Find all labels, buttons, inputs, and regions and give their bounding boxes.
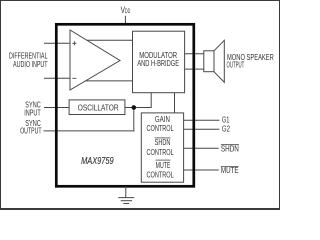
- image border frame: [1, 1, 280, 210]
- wire VDD supply: [124, 16, 126, 25]
- svg-text:CONTROL: CONTROL: [147, 170, 175, 179]
- wire SHDN: [184, 147, 219, 149]
- svg-text:MUTE: MUTE: [221, 166, 239, 175]
- wire sync output vertical: [133, 108, 135, 132]
- wire oscillator output: [125, 107, 151, 109]
- svg-text:G2: G2: [222, 125, 230, 134]
- svg-text:SHDN: SHDN: [221, 144, 239, 153]
- svg-text:SHDN: SHDN: [155, 138, 171, 147]
- wire modulator to gain control drop: [174, 93, 176, 114]
- speaker driver rectangle: [204, 51, 214, 72]
- svg-text:GAIN: GAIN: [155, 115, 170, 124]
- junction dot oscillator node: [132, 105, 137, 110]
- svg-text:DD: DD: [125, 8, 131, 15]
- wire MUTE: [184, 169, 219, 171]
- svg-text:MUTE: MUTE: [156, 161, 171, 170]
- pin label MUTE with overline: [221, 165, 239, 167]
- op-amp input triangle: [70, 30, 120, 90]
- svg-text:G1: G1: [222, 116, 230, 125]
- svg-text:INPUT: INPUT: [24, 109, 41, 118]
- svg-text:OUTPUT: OUTPUT: [20, 126, 42, 135]
- wire sync output horizontal: [44, 130, 135, 132]
- wire differential input -: [44, 77, 70, 79]
- pin label SHDN with overline: [221, 144, 239, 146]
- oscillator box: [69, 100, 125, 115]
- wire amp output bottom to modulator: [86, 80, 133, 82]
- svg-text:AND H-BRIDGE: AND H-BRIDGE: [137, 59, 179, 68]
- wire speaker out-: [185, 68, 204, 70]
- wire modulator bottom left drop: [150, 93, 152, 108]
- wire G2: [184, 128, 220, 130]
- mute control label: [156, 159, 171, 161]
- svg-text:CONTROL: CONTROL: [147, 124, 175, 133]
- shdn control label: [155, 137, 171, 139]
- wire amp output top to modulator: [86, 39, 132, 41]
- control block box: [141, 113, 183, 182]
- wire speaker out+: [185, 53, 204, 55]
- wire differential input +: [44, 42, 70, 44]
- speaker cone: [214, 40, 224, 82]
- svg-text:OUTPUT: OUTPUT: [227, 60, 245, 69]
- svg-text:CONTROL: CONTROL: [147, 148, 175, 157]
- wire G1: [184, 119, 220, 121]
- IC boundary box MAX9759: [56, 24, 194, 186]
- plus sign: [72, 42, 76, 44]
- svg-text:OSCILLATOR: OSCILLATOR: [78, 103, 119, 112]
- modulator and h-bridge box: [133, 31, 185, 92]
- ground symbol: [125, 186, 127, 198]
- wire sync input: [44, 107, 70, 109]
- svg-text:MAX9759: MAX9759: [81, 156, 114, 167]
- minus sign: [72, 77, 76, 79]
- svg-text:AUDIO INPUT: AUDIO INPUT: [13, 60, 48, 69]
